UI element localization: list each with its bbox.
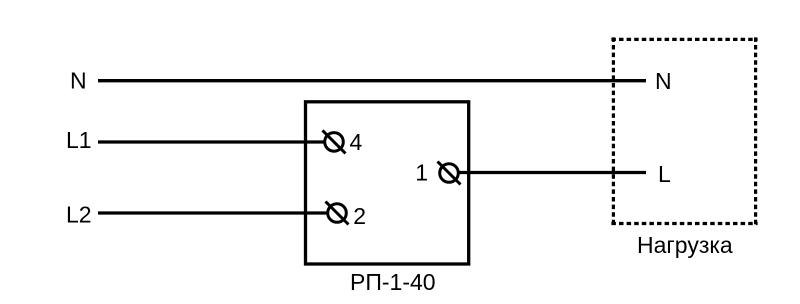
wire N (neutral, supply to load) — [98, 79, 646, 82]
svg-text:Нагрузка: Нагрузка — [637, 232, 733, 258]
wire L (terminal 1 to load) — [460, 171, 647, 174]
load box (dashed) right edge — [754, 37, 757, 225]
svg-text:РП-1-40: РП-1-40 — [350, 269, 436, 295]
terminal 1 (screw terminal circle with slash) — [438, 162, 461, 185]
svg-text:2: 2 — [353, 203, 366, 229]
svg-text:1: 1 — [415, 159, 428, 185]
relay box РП-1-40 — [306, 102, 469, 264]
load box (dashed) left edge — [612, 37, 615, 225]
svg-text:L2: L2 — [66, 202, 92, 228]
load box (dashed) top edge — [611, 38, 757, 41]
svg-text:4: 4 — [350, 129, 363, 155]
svg-text:N: N — [70, 68, 87, 94]
wire L2 to terminal 2 — [98, 211, 329, 214]
load box (dashed) bottom edge — [611, 222, 757, 225]
terminal 2 (screw terminal circle with slash) — [326, 202, 349, 225]
terminal 4 (screw terminal circle with slash) — [323, 130, 346, 153]
svg-text:L1: L1 — [66, 127, 92, 153]
svg-text:N: N — [655, 68, 672, 94]
svg-text:L: L — [658, 161, 671, 187]
wire L1 to terminal 4 — [98, 140, 326, 143]
